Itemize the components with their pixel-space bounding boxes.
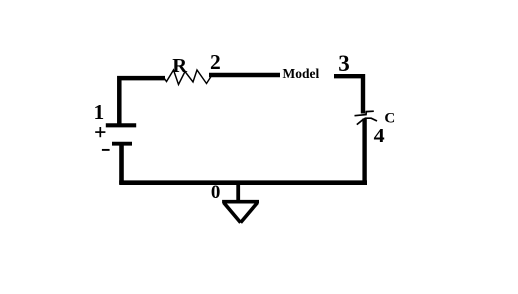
wire W3: node 3 across and down to capacitor (top-right corner): [334, 76, 363, 113]
battery minus sign: [102, 149, 110, 151]
battery V1 positive plate: [106, 123, 136, 127]
svg-text:Model: Model: [283, 66, 320, 81]
ground triangle: [222, 200, 259, 204]
wire W6: battery negative down to bottom rail: [119, 144, 124, 184]
svg-text:0: 0: [211, 182, 221, 203]
svg-text:C: C: [384, 111, 395, 127]
wire W4: capacitor down to bottom rail: [362, 119, 366, 186]
svg-text:1: 1: [94, 100, 105, 124]
svg-text:R: R: [172, 55, 187, 77]
wire W2: resistor to Model: [209, 73, 280, 77]
resistor R: [164, 70, 211, 85]
wire W1: node 1 up and across to resistor (top-left corner): [119, 78, 165, 123]
battery V1 negative plate: [112, 142, 132, 146]
svg-text:4: 4: [374, 126, 385, 147]
ground stem: [236, 183, 240, 201]
svg-text:3: 3: [338, 51, 350, 76]
capacitor C bottom plate: [357, 118, 377, 124]
capacitor C top plate: [355, 111, 374, 116]
wire W5: bottom rail (node 0): [119, 180, 367, 185]
svg-text:2: 2: [210, 50, 221, 74]
battery plus sign: [95, 131, 105, 133]
